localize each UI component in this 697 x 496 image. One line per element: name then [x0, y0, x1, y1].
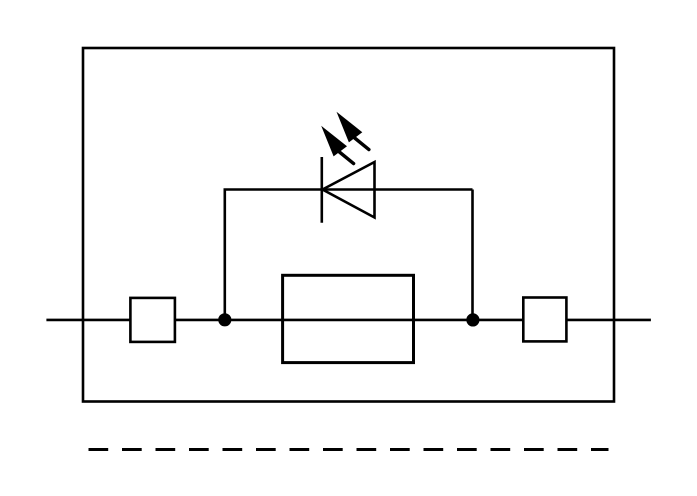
terminal clamp contact left	[130, 298, 175, 342]
junction node right	[466, 313, 479, 326]
wire: LED branch top horizontal	[224, 188, 473, 191]
terminal clamp contact right	[523, 298, 566, 342]
LED emission arrow lower-left	[321, 126, 353, 164]
wire: LED branch right vertical	[471, 190, 474, 320]
wire: main conductor	[46, 319, 651, 322]
junction node left	[218, 313, 231, 326]
enclosure outline	[83, 48, 614, 402]
fuse F1	[283, 275, 414, 362]
wire: LED branch left vertical	[224, 190, 227, 320]
LED triangle	[323, 162, 375, 218]
LED emission arrow upper-right	[337, 112, 369, 150]
mounting rail (dashed line)	[89, 448, 609, 451]
LED cathode bar	[320, 157, 323, 223]
